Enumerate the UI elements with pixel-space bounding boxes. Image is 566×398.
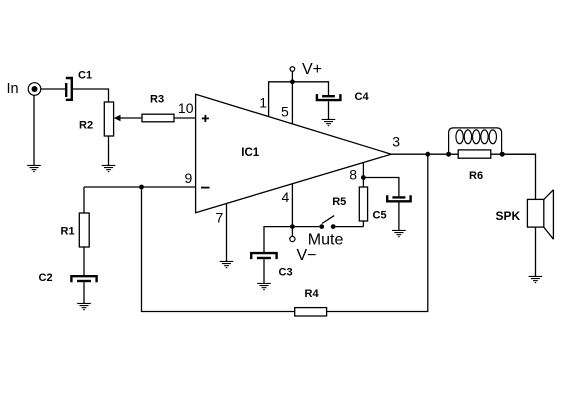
svg-text:R5: R5 (332, 196, 346, 208)
input jack J1 (28, 83, 41, 96)
wire mute to R5 bottom (362, 221, 364, 227)
svg-text:1: 1 (259, 95, 267, 111)
wire junction to C3 (264, 227, 292, 253)
node feedback tap (425, 152, 430, 157)
svg-text:5: 5 (281, 104, 289, 120)
svg-text:R6: R6 (469, 170, 483, 182)
pin 9 wire (84, 186, 196, 188)
capacitor C4 (317, 94, 341, 100)
V+ terminal (290, 67, 295, 72)
svg-text:C2: C2 (39, 272, 53, 284)
potentiometer R2 (104, 102, 113, 136)
wire to pin 1 (269, 82, 293, 117)
wire jack to ground (33, 95, 35, 165)
ground (R2) (102, 165, 116, 171)
svg-text:SPK: SPK (496, 209, 521, 223)
wire C2 to ground (83, 282, 85, 303)
svg-text:R4: R4 (305, 288, 320, 300)
wire R2 to ground (108, 136, 110, 166)
svg-text:C5: C5 (373, 210, 387, 222)
node R6 left (446, 152, 451, 157)
svg-text:3: 3 (392, 134, 400, 150)
node pin4/V- junction (290, 224, 295, 229)
capacitor C2 (71, 276, 96, 282)
svg-text:V+: V+ (302, 61, 322, 78)
node V+ junction (290, 79, 295, 84)
ground (C3) (257, 283, 271, 289)
inductor L1 (449, 128, 502, 154)
svg-text:R2: R2 (79, 119, 93, 131)
svg-text:V−: V− (297, 247, 317, 264)
node pin 8 junction (361, 175, 366, 180)
pin 4 wire (291, 184, 293, 227)
wire C5 to ground (398, 202, 400, 230)
resistor R3 (142, 114, 174, 122)
ground (pin 7) (220, 261, 234, 267)
ground (C2) (77, 303, 91, 309)
ground (speaker) (529, 276, 543, 282)
wire R3 to op-amp pin 10 (174, 117, 196, 119)
V- terminal (290, 236, 295, 241)
wire R6 to speaker (503, 154, 536, 200)
node R6 right (500, 152, 505, 157)
wire V+ to pin 5 (291, 72, 293, 124)
wiper arrow of R2 (114, 115, 142, 121)
pin 7 wire to ground (226, 204, 228, 262)
output wire pin 3 (391, 153, 535, 155)
wire speaker to ground (535, 227, 537, 276)
svg-text:9: 9 (185, 170, 193, 186)
capacitor C3 (251, 253, 276, 259)
svg-text:8: 8 (349, 167, 357, 183)
wire pin9 corner to R1 (83, 187, 85, 213)
ground (input jack) (27, 165, 41, 171)
wire junction to V- terminal (291, 227, 293, 237)
mute switch SW1 (292, 216, 363, 229)
svg-text:R3: R3 (150, 94, 164, 106)
feedback wire pin9 to R4 (142, 187, 295, 312)
svg-text:R1: R1 (61, 226, 75, 238)
resistor R5 (359, 187, 367, 221)
ground (C4) (322, 119, 336, 125)
wire V+ node to C4 (292, 82, 328, 95)
wire jack to C1 (41, 88, 65, 90)
svg-text:10: 10 (178, 100, 194, 116)
svg-text:C3: C3 (279, 267, 293, 279)
wire R1 to C2 (83, 247, 85, 275)
svg-text:C4: C4 (355, 91, 370, 103)
feedback wire R4 to output (327, 154, 428, 312)
resistor R4 (295, 308, 327, 316)
wire C3 to ground (263, 259, 265, 283)
wire C1 to R2 top (73, 89, 109, 102)
wire pin 8 to C5 (363, 178, 399, 197)
svg-text:4: 4 (282, 189, 290, 205)
speaker SPK (527, 190, 553, 239)
wire C4 to ground (328, 101, 330, 120)
svg-text:In: In (7, 81, 19, 97)
svg-text:Mute: Mute (308, 232, 344, 249)
resistor R6 (458, 150, 491, 158)
svg-text:IC1: IC1 (241, 147, 259, 159)
ground (C5) (392, 230, 406, 236)
resistor R1 (79, 213, 89, 247)
capacitor C1 (66, 78, 72, 100)
node pin 9 junction (139, 185, 144, 190)
pin 8 wire (362, 163, 364, 188)
svg-text:C1: C1 (78, 70, 92, 82)
op-amp IC1 (196, 94, 392, 213)
svg-text:7: 7 (216, 210, 224, 226)
capacitor C5 (387, 195, 410, 201)
